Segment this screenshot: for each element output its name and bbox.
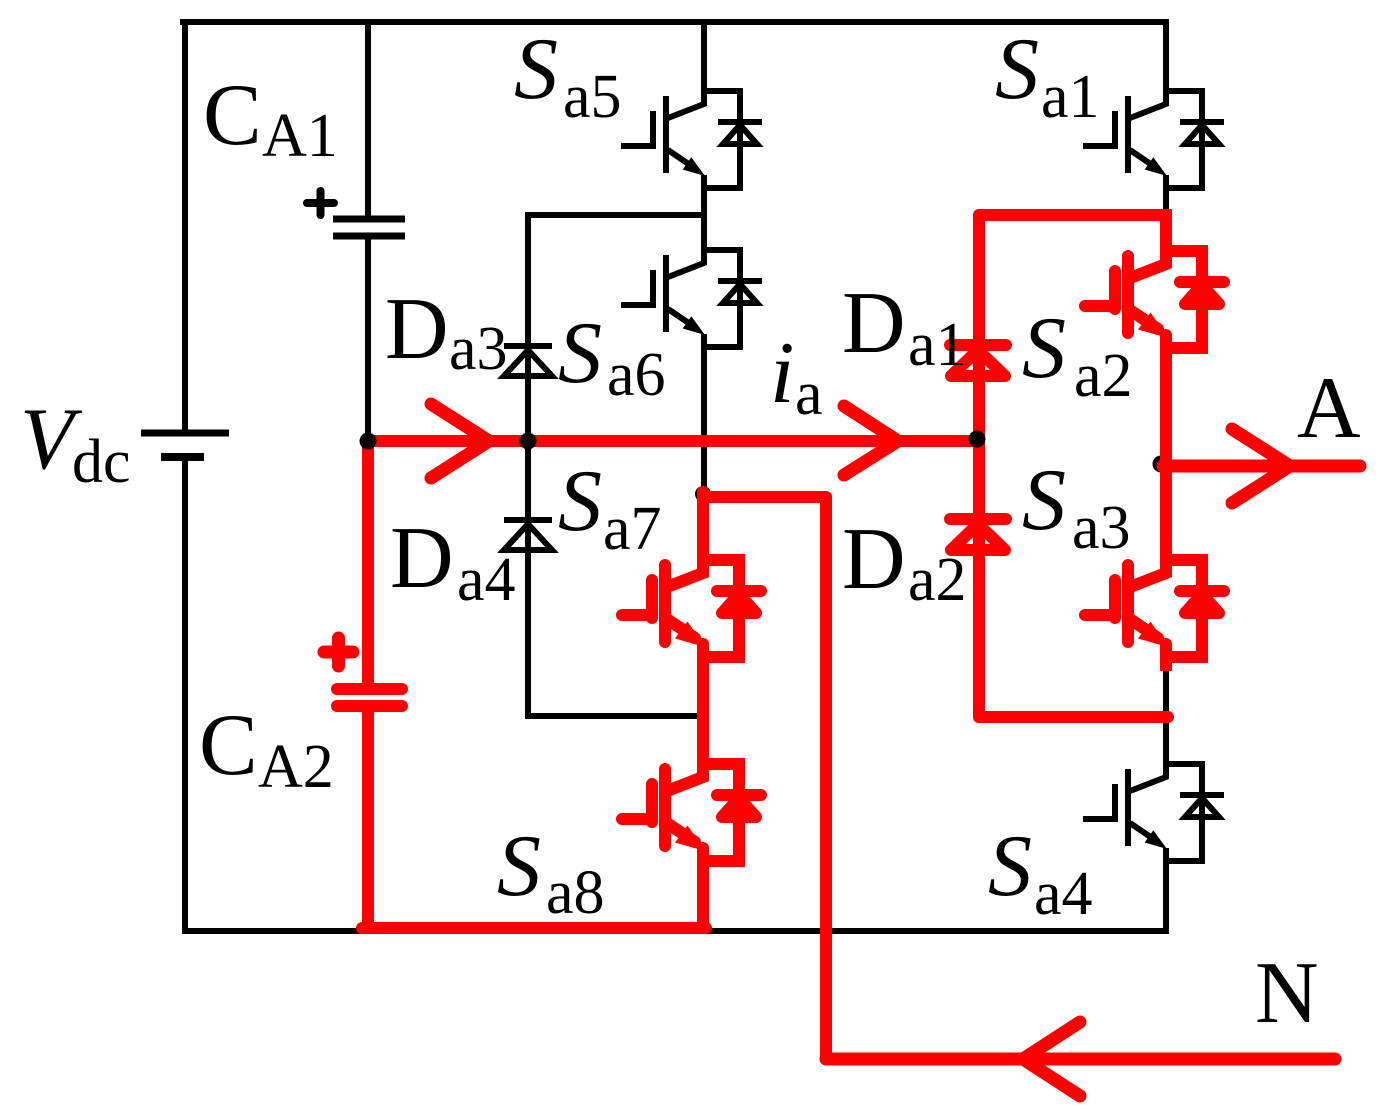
- transistor Sa7 (red): [622, 558, 761, 659]
- wire C_A1 top branch: [365, 22, 371, 215]
- arrow red midline right (i_a): [844, 406, 898, 475]
- wire clamp box left: bottom horizontal: [528, 713, 700, 719]
- svg-text:S: S: [1022, 452, 1066, 549]
- battery Vdc: [141, 433, 229, 457]
- svg-text:D: D: [842, 511, 906, 608]
- diode Da3: [504, 346, 552, 376]
- svg-text:a2: a2: [908, 546, 967, 614]
- svg-text:a3: a3: [1072, 494, 1131, 562]
- wire C_A2 branch upper (red): [362, 441, 374, 683]
- svg-text:A: A: [1297, 360, 1361, 457]
- svg-text:a4: a4: [457, 546, 516, 614]
- node dot main-line at red box: [969, 431, 986, 448]
- wire Sa6 emitter down to mid node: [701, 347, 707, 491]
- svg-text:S: S: [558, 305, 602, 402]
- wire bottom rail: [189, 928, 1166, 934]
- svg-text:a3: a3: [449, 315, 508, 383]
- wire Sa7 collector stub (red): [697, 492, 709, 560]
- plus C_A1: [307, 191, 334, 215]
- wire Sa4 emitter to bottom rail: [1163, 861, 1169, 931]
- wire red box top: [979, 209, 1166, 221]
- svg-text:D: D: [390, 510, 454, 607]
- svg-text:a: a: [795, 360, 823, 428]
- wire red box left vertical: [973, 215, 985, 717]
- svg-text:C: C: [199, 697, 258, 794]
- wire Sa3 emitter to Sa4 collector (black): [1163, 666, 1169, 776]
- wire output A (red): [1163, 460, 1360, 473]
- arrow N (pointing left): [1023, 1022, 1080, 1096]
- wire S_a1 collector drop: [1163, 22, 1169, 91]
- wire S_a5 collector drop: [701, 22, 707, 91]
- svg-text:D: D: [385, 281, 449, 378]
- svg-text:a6: a6: [607, 341, 666, 409]
- svg-text:S: S: [1022, 300, 1066, 397]
- svg-text:i: i: [770, 325, 794, 422]
- node dot main-line at clamp line: [520, 433, 537, 450]
- svg-text:a7: a7: [603, 495, 662, 563]
- svg-text:a1: a1: [1041, 63, 1100, 131]
- transistor Sa3 (red): [1085, 558, 1224, 659]
- transistor Sa1: [1083, 89, 1224, 190]
- wire left vertical (lower): [182, 458, 188, 931]
- transistor Sa8 (red): [622, 762, 761, 863]
- arrow output A: [1232, 429, 1290, 503]
- svg-text:A1: A1: [262, 102, 338, 170]
- wire Sa1 emitter (black stub): [1163, 188, 1169, 211]
- wire Sa3 emitter red stub: [1160, 657, 1172, 671]
- transistor Sa6: [621, 248, 762, 349]
- diode Da1 (red): [950, 345, 1006, 376]
- transistor Sa2 (red): [1085, 249, 1224, 350]
- svg-text:S: S: [995, 21, 1039, 118]
- svg-text:S: S: [514, 21, 558, 118]
- wire red main midline: [368, 435, 978, 447]
- wire Sa7 emitter to Sa8 collector (red): [697, 657, 709, 764]
- diode Da2 (red): [950, 519, 1006, 550]
- node dot main-line at C_A2 branch: [360, 433, 377, 450]
- wire Sa2 collector (red): [1160, 209, 1172, 251]
- wire clamp box left: vertical with D_a3 D_a4: [525, 215, 531, 716]
- svg-text:a2: a2: [1074, 342, 1133, 410]
- wire C_A1 to node: [365, 239, 371, 441]
- svg-text:S: S: [558, 453, 602, 550]
- node A junction dot: [1153, 456, 1170, 473]
- wire N horizontal (red): [826, 1053, 1335, 1066]
- svg-text:dc: dc: [72, 428, 131, 496]
- svg-text:a1: a1: [908, 311, 967, 379]
- wire Sa5 emitter to Sa6 collector: [701, 188, 707, 250]
- wire red box bottom: [979, 711, 1168, 723]
- transistor Sa5: [621, 89, 762, 190]
- svg-text:D: D: [842, 275, 906, 372]
- svg-text:S: S: [497, 818, 541, 915]
- svg-text:a8: a8: [546, 859, 605, 927]
- transistor Sa4: [1083, 762, 1224, 863]
- node Sa6-emitter junction dot: [695, 486, 711, 502]
- arrow red midline left: [431, 404, 489, 478]
- capacitor C_A2 (red): [337, 689, 402, 706]
- wire C_A2 branch lower (red): [362, 712, 374, 928]
- diode Da4: [504, 520, 552, 550]
- wire N riser vertical (red): [820, 497, 832, 1059]
- svg-text:a4: a4: [1034, 860, 1093, 928]
- wire top rail: [183, 19, 1166, 25]
- wire clamp box left: top horizontal: [528, 212, 704, 218]
- wire Sa8 emitter to bottom (red): [697, 861, 709, 928]
- svg-text:N: N: [1255, 945, 1319, 1042]
- svg-text:C: C: [203, 67, 262, 164]
- capacitor C_A1: [333, 219, 405, 236]
- wire red bottom segment: [362, 922, 706, 934]
- plus C_A2 (red): [324, 638, 353, 666]
- wire Sa2 emitter to node A (red): [1160, 348, 1172, 466]
- wire Sa3 collector from node A (red): [1160, 466, 1172, 560]
- svg-text:a5: a5: [563, 63, 622, 131]
- svg-text:A2: A2: [258, 733, 334, 801]
- svg-text:S: S: [988, 818, 1032, 915]
- wire red node to N riser: horizontal: [703, 491, 826, 503]
- wire left vertical (upper): [182, 22, 188, 433]
